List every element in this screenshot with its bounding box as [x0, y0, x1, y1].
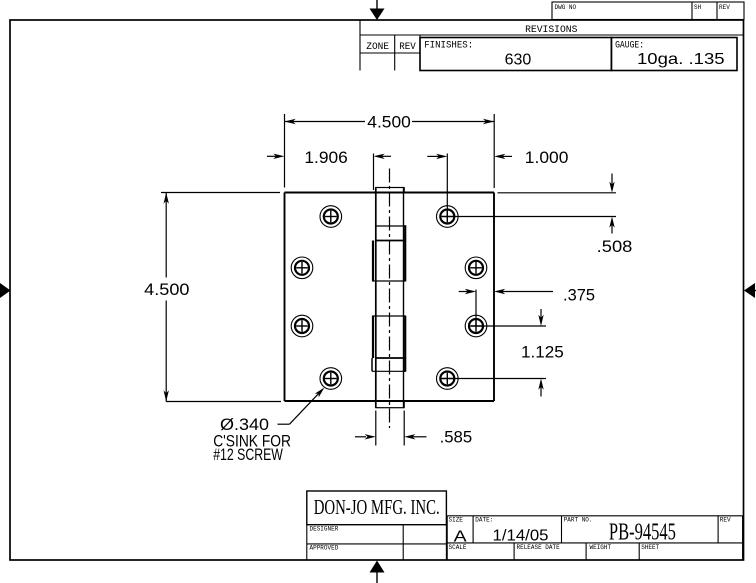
svg-text:1.906: 1.906	[304, 148, 347, 167]
barrel narrow tube edges	[376, 188, 404, 408]
svg-text:630: 630	[505, 51, 532, 68]
svg-text:PART NO.: PART NO.	[564, 517, 593, 524]
centering arrow bottom	[370, 561, 385, 583]
svg-text:DATE:: DATE:	[475, 517, 493, 524]
svg-text:REVISIONS: REVISIONS	[525, 25, 577, 36]
screw hole H5	[437, 206, 459, 228]
svg-text:APPROVED: APPROVED	[310, 545, 339, 552]
dwg-no strip table top right	[552, 2, 744, 20]
leader countersink note	[278, 390, 322, 424]
screw hole H2	[291, 257, 313, 279]
svg-text:DWG NO: DWG NO	[555, 4, 577, 11]
svg-text:A: A	[454, 529, 467, 546]
centering arrow right	[744, 283, 756, 298]
revisions table lines	[360, 20, 744, 71]
finishes box	[420, 38, 611, 71]
svg-text:1.000: 1.000	[525, 148, 569, 167]
dimension .585	[355, 411, 427, 446]
svg-text:ZONE: ZONE	[366, 42, 389, 53]
svg-text:DON-JO MFG. INC.: DON-JO MFG. INC.	[314, 495, 440, 519]
svg-text:DESIGNER: DESIGNER	[310, 526, 339, 533]
svg-text:GAUGE:: GAUGE:	[615, 40, 644, 51]
title block company box	[307, 491, 447, 525]
barrel knuckle K2 with bearing ring	[373, 225, 405, 281]
svg-text:SIZE: SIZE	[449, 517, 464, 524]
svg-text:4.500: 4.500	[144, 280, 189, 299]
svg-text:SH: SH	[694, 4, 702, 11]
svg-text:.375: .375	[563, 286, 595, 305]
svg-text:1.125: 1.125	[521, 343, 564, 362]
svg-text:REV: REV	[720, 517, 731, 524]
pin cap bottom	[376, 401, 404, 408]
screw hole H3	[291, 315, 313, 337]
svg-text:REV: REV	[719, 4, 730, 11]
screw hole H4	[320, 368, 342, 390]
dimension .375	[459, 290, 553, 328]
svg-text:PB-94545: PB-94545	[609, 518, 676, 545]
svg-text:FINISHES:: FINISHES:	[424, 41, 473, 52]
hinge body outline	[285, 193, 495, 402]
dimension 1.906	[267, 154, 391, 191]
title block left rows	[307, 525, 447, 560]
svg-text:.508: .508	[597, 237, 633, 256]
centering arrow left	[0, 283, 11, 298]
dimension 4.500 top	[285, 114, 495, 188]
svg-text:.585: .585	[440, 428, 473, 447]
pin center line	[389, 169, 391, 429]
svg-text:REV: REV	[399, 42, 416, 53]
screw hole H1	[320, 206, 342, 228]
svg-text:#12 SCREW: #12 SCREW	[213, 445, 283, 464]
svg-text:RELEASE DATE: RELEASE DATE	[517, 544, 561, 551]
title block right grid	[447, 516, 742, 560]
svg-text:1/14/05: 1/14/05	[493, 528, 549, 545]
screw hole H8	[437, 368, 459, 390]
svg-text:10ga. .135: 10ga. .135	[637, 51, 725, 68]
pin cap top	[376, 188, 404, 193]
screw hole H7	[465, 315, 487, 337]
dimension 1.000	[427, 154, 512, 219]
dimension .508	[442, 174, 616, 234]
centering arrow top	[370, 0, 385, 20]
barrel knuckle K4 with bearing ring	[372, 316, 405, 372]
screw hole H6	[465, 257, 487, 279]
svg-text:4.500: 4.500	[367, 112, 411, 131]
dimension 1.125	[441, 309, 547, 397]
gauge box	[611, 38, 737, 71]
dimension 4.500 left vertical	[161, 193, 281, 402]
